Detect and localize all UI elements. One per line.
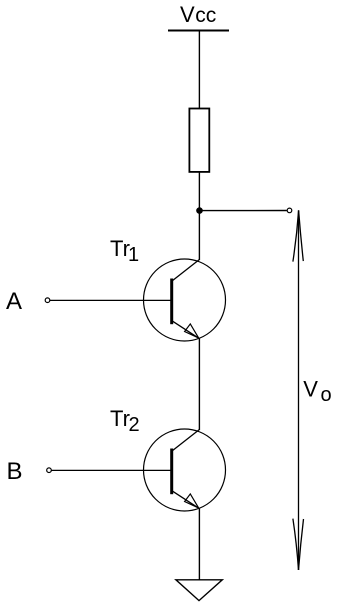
wire: A to Tr1 base xyxy=(50,299,172,301)
wire: node to output terminal xyxy=(200,210,287,212)
ground xyxy=(176,580,222,601)
wire: Vcc bar to resistor xyxy=(198,31,200,109)
wire: Tr2 emitter to ground xyxy=(198,508,200,580)
wire: resistor to node xyxy=(198,172,200,211)
node: output junction xyxy=(196,207,203,214)
wire: B to Tr2 base xyxy=(52,469,172,471)
wire: node to Tr1 collector xyxy=(198,211,200,260)
Vo arrow (double-headed) xyxy=(293,210,304,570)
svg-text:A: A xyxy=(6,288,22,315)
resistor R1 xyxy=(189,109,209,172)
svg-text:Vcc: Vcc xyxy=(180,2,216,27)
wire: Tr1 emitter to Tr2 collector xyxy=(198,338,200,430)
transistor Tr2 xyxy=(144,429,226,511)
output terminal xyxy=(287,208,292,213)
input terminal A xyxy=(45,298,50,303)
input terminal B xyxy=(47,468,52,473)
svg-text:B: B xyxy=(7,458,23,485)
transistor Tr1 xyxy=(144,259,226,341)
Vcc power bar xyxy=(168,30,229,32)
